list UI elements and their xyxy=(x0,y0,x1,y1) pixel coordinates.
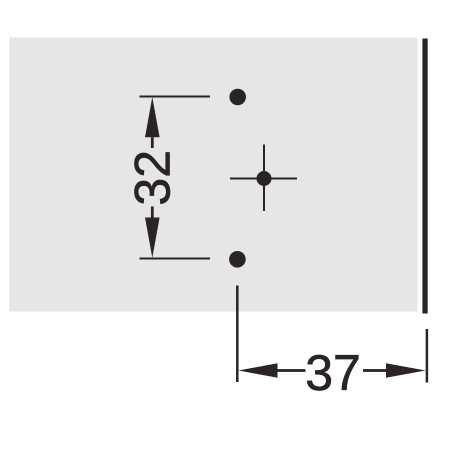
svg-text:32: 32 xyxy=(124,150,180,206)
svg-text:37: 37 xyxy=(305,345,361,401)
